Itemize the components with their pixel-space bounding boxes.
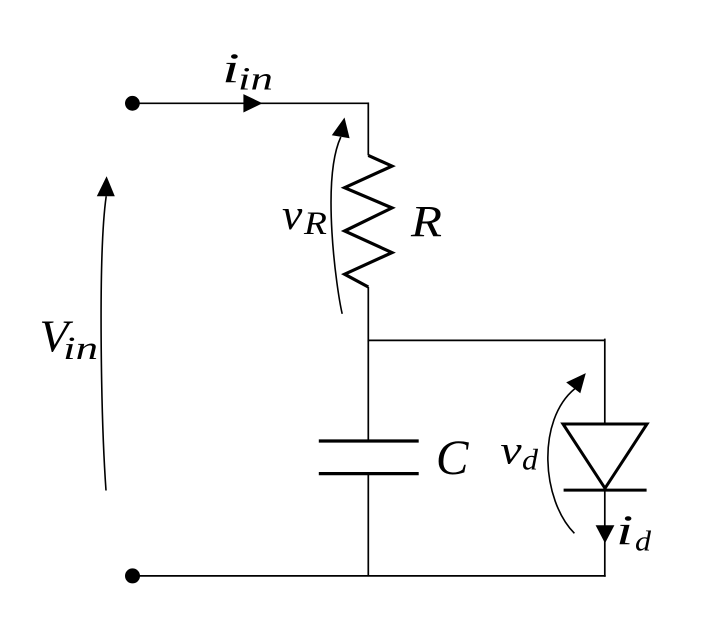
svg-text:v: v (500, 428, 521, 473)
arc: v_R curved arrow (331, 137, 342, 314)
svg-text:d: d (522, 443, 539, 476)
diode D cathode bar (564, 489, 647, 492)
wire: diode cathode to bottom wire (604, 490, 606, 577)
capacitor C top plate (319, 439, 419, 442)
node: bottom-left terminal dot (125, 568, 140, 583)
svg-text:i: i (616, 508, 633, 554)
node: top-left terminal dot (125, 96, 140, 111)
arrowhead: v_d polarity arrow (566, 373, 586, 393)
wire: resistor bottom to mid junction (367, 287, 369, 341)
arc: v_d curved arrow (548, 389, 575, 534)
wire: bottom horizontal return (133, 575, 606, 577)
svg-text:in: in (238, 62, 273, 98)
wire: mid horizontal to diode branch (368, 339, 605, 341)
wire: capacitor bottom plate to bottom wire (367, 474, 369, 576)
svg-text:in: in (63, 330, 98, 367)
arrowhead: i_in current arrow on top wire (243, 94, 262, 112)
svg-text:C: C (436, 430, 470, 485)
wire: top horizontal (Vin+ to resistor corner) (132, 102, 368, 104)
diode D triangle (anode) (563, 424, 647, 488)
svg-text:v: v (282, 191, 303, 239)
svg-text:d: d (635, 525, 652, 557)
svg-text:R: R (303, 205, 327, 241)
arrowhead: v_R polarity arrow (332, 118, 350, 139)
arrowhead: i_d current arrow below diode (596, 525, 615, 543)
wire: right vertical down to diode (604, 339, 606, 424)
svg-text:R: R (410, 197, 442, 246)
resistor R zigzag (345, 155, 392, 287)
arc: V_in curved arrow (101, 196, 106, 490)
capacitor C bottom plate (319, 472, 419, 475)
wire: junction down to capacitor top plate (367, 340, 369, 440)
wire: top-right vertical drop to resistor (367, 102, 369, 155)
arrowhead: V_in polarity arrow (97, 176, 115, 196)
